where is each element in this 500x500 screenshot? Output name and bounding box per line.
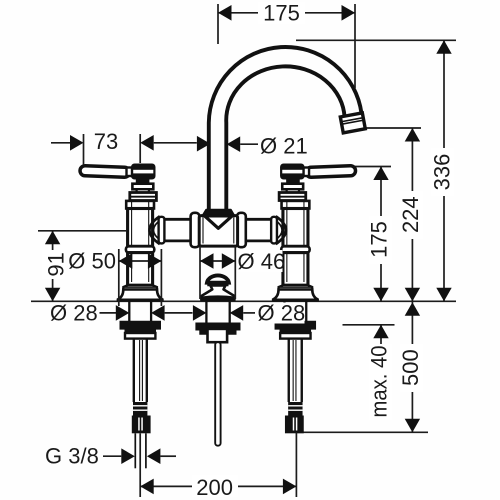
dimension: diameter 50 bbox=[68, 249, 161, 307]
wire: spout outlet reference line bbox=[347, 127, 422, 129]
dimension: diameter 46 bbox=[200, 246, 285, 299]
spout nozzle / aerator bbox=[340, 113, 365, 133]
pop-up rod bbox=[215, 342, 220, 446]
dimension: 73 bbox=[51, 129, 197, 165]
wire: 500 bottom reference line bbox=[296, 431, 428, 433]
dimension: 91 left bbox=[42, 231, 68, 301]
svg-text:175: 175 bbox=[367, 221, 392, 258]
right valve column U2 (mirrored) bbox=[273, 164, 356, 434]
svg-text:336: 336 bbox=[430, 154, 455, 191]
dimension: 500 bbox=[398, 301, 423, 432]
pop-up locknut bbox=[195, 323, 240, 335]
svg-text:91: 91 bbox=[43, 252, 68, 276]
tee top flare collar bbox=[202, 210, 234, 216]
dimension: max. 40 bbox=[367, 325, 393, 420]
tee right socket ring bbox=[237, 213, 246, 247]
svg-text:200: 200 bbox=[196, 475, 233, 500]
tee left socket ring bbox=[191, 213, 200, 247]
dimension: diameter 28 left bbox=[50, 300, 255, 325]
dimension: G 3/8 bbox=[45, 444, 176, 469]
bridge pipe left segment bbox=[162, 219, 190, 241]
svg-text:Ø 46: Ø 46 bbox=[238, 249, 286, 274]
svg-text:G 3/8: G 3/8 bbox=[45, 444, 99, 469]
wire: deck/mounting surface line bbox=[31, 300, 456, 302]
right ball joint curves bbox=[276, 216, 286, 244]
left column socket ring bbox=[159, 217, 165, 244]
dimension: 200 bottom bbox=[140, 432, 296, 500]
svg-text:175: 175 bbox=[263, 1, 300, 26]
wire: top reference line (spout top) bbox=[296, 39, 456, 41]
svg-text:224: 224 bbox=[398, 196, 423, 233]
pop-up rod guide bbox=[208, 329, 228, 342]
dimension: 224 right bbox=[398, 128, 423, 301]
left ball joint curves bbox=[150, 216, 160, 244]
dimension: 336 right bbox=[430, 40, 455, 301]
wire: counter bottom line bbox=[343, 324, 395, 326]
wire: handle top reference line bbox=[355, 166, 391, 168]
svg-text:500: 500 bbox=[398, 349, 423, 386]
left valve column U1 bbox=[80, 164, 163, 434]
right column socket ring bbox=[271, 217, 277, 244]
svg-text:Ø 21: Ø 21 bbox=[260, 134, 308, 159]
svg-text:Ø 50: Ø 50 bbox=[68, 249, 116, 274]
wire: 91 top reference line bbox=[38, 230, 126, 232]
svg-text:Ø 28: Ø 28 bbox=[50, 300, 98, 325]
bridge pipe right segment bbox=[246, 219, 274, 241]
left hose end below connector bbox=[134, 433, 136, 468]
dimension: 175 top bbox=[218, 1, 355, 89]
pop-up shank below deck bbox=[205, 301, 207, 322]
spout gooseneck tube bbox=[209, 47, 362, 212]
svg-text:Ø 28: Ø 28 bbox=[258, 300, 306, 325]
dimension: diameter 28 right label bbox=[257, 300, 306, 325]
pop-up knob bbox=[200, 275, 235, 300]
dimension: diameter 21 bbox=[197, 134, 308, 159]
dimension: 175 right (handle height) bbox=[367, 167, 393, 302]
svg-text:max. 40: max. 40 bbox=[367, 346, 392, 418]
svg-text:73: 73 bbox=[94, 129, 118, 154]
tee chevron bbox=[205, 216, 233, 228]
tee body bbox=[199, 216, 237, 247]
